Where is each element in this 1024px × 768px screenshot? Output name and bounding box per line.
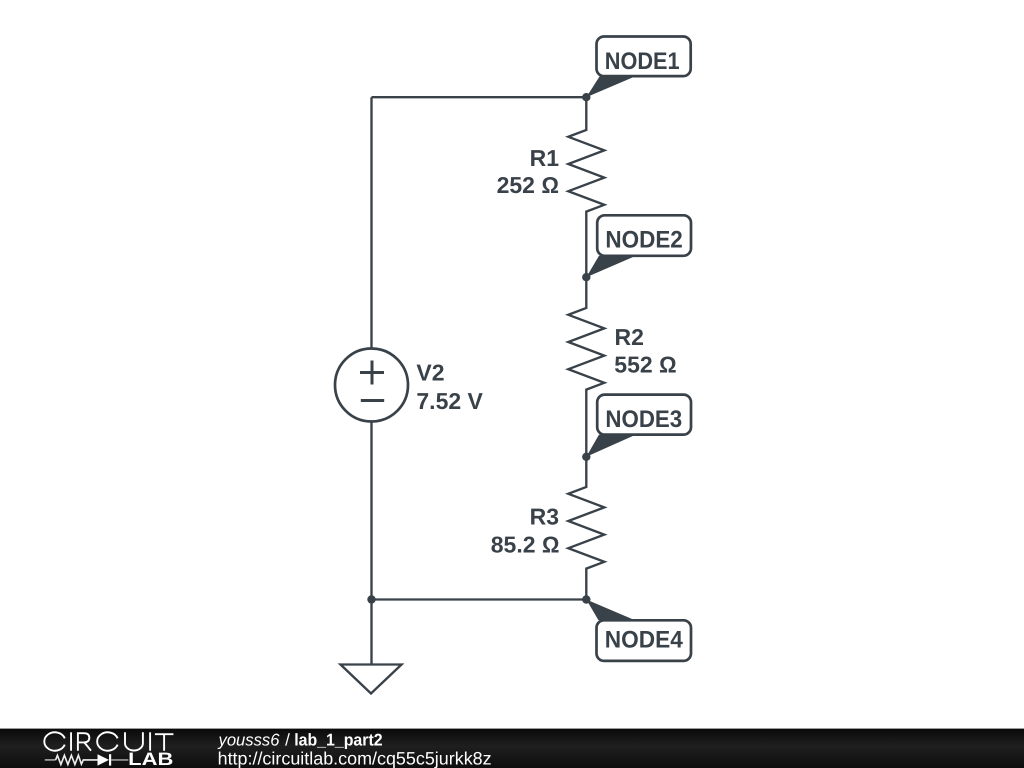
- svg-text:R1: R1: [530, 145, 560, 171]
- svg-text:LAB: LAB: [128, 749, 173, 768]
- svg-text:252 Ω: 252 Ω: [497, 172, 559, 198]
- svg-text:yousss6: yousss6: [218, 730, 281, 749]
- svg-text:V2: V2: [416, 360, 444, 386]
- svg-text:R3: R3: [530, 503, 559, 529]
- svg-text:http://circuitlab.com/cq55c5ju: http://circuitlab.com/cq55c5jurkk8z: [218, 749, 492, 768]
- svg-text:NODE2: NODE2: [605, 227, 682, 254]
- svg-text:NODE4: NODE4: [605, 627, 684, 654]
- svg-text:R2: R2: [615, 324, 644, 350]
- svg-text:7.52 V: 7.52 V: [416, 388, 483, 414]
- svg-text:NODE3: NODE3: [605, 406, 682, 433]
- svg-text:/: /: [285, 730, 290, 749]
- svg-text:lab_1_part2: lab_1_part2: [294, 730, 382, 749]
- svg-text:NODE1: NODE1: [605, 48, 680, 75]
- svg-text:85.2 Ω: 85.2 Ω: [491, 532, 560, 558]
- svg-text:552 Ω: 552 Ω: [614, 352, 676, 378]
